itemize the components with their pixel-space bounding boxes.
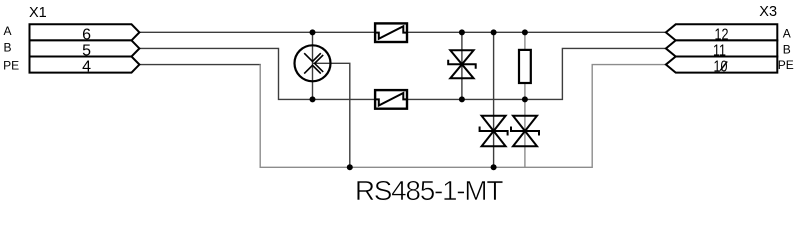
svg-text:5: 5 [82, 42, 91, 59]
junction: GDT bottom on B bus [310, 96, 316, 102]
svg-text:B: B [4, 40, 12, 54]
junction: TVS D2 branch on A line [491, 29, 497, 35]
wire GDT center electrode to PE bus [313, 63, 350, 167]
junction: GDT top on A line [310, 29, 316, 35]
svg-text:A: A [4, 24, 12, 38]
TVS diode D2 (bidirectional, A-PE) [480, 116, 508, 146]
svg-text:A: A [783, 26, 791, 40]
svg-text:12: 12 [715, 26, 729, 43]
svg-text:X3: X3 [759, 4, 777, 20]
wire A: X1.6 to fuse F1 [139, 31, 375, 33]
wire GDT vertical A to B [312, 32, 314, 99]
TVS diode D3 (bidirectional, B-PE) [511, 116, 539, 146]
wire B bus: fuse F2 to riser up to X3.11 [407, 48, 666, 99]
junction: R1 / TVS D3 on B bus [522, 96, 528, 102]
svg-text:11: 11 [713, 42, 726, 59]
slash of zero in pin number 10 [720, 61, 727, 70]
svg-text:RS485-1-MT: RS485-1-MT [355, 175, 503, 206]
wire A: fuse F1 to X3.12 [407, 31, 666, 33]
svg-text:PE: PE [778, 58, 794, 72]
fuse F2 (PTC resettable fuse, line B) [375, 90, 407, 109]
wire TVS D1 vertical A to B [461, 32, 463, 99]
junction: GDT electrode on PE bus [347, 164, 353, 170]
fuse F1 (PTC resettable fuse, line A) [375, 23, 407, 42]
wire PE riser, PE bus, riser up to X3.10 [260, 64, 666, 167]
svg-text:6: 6 [82, 26, 91, 43]
connector X1 terminal 5 (row B) [30, 40, 140, 56]
svg-text:X1: X1 [29, 5, 47, 21]
wire B: X1.5 down to B bus into fuse F2 [139, 48, 375, 99]
connector X3 terminal 10 (row PE) [666, 57, 777, 73]
junction: TVS D1 on B bus [459, 96, 465, 102]
connector X3 terminal 11 (row B) [666, 40, 777, 56]
connector X1 terminal 4 (row PE) [30, 57, 140, 73]
wire B bus down through TVS D3 to PE bus [524, 99, 526, 167]
wire resistor R1 bottom to B bus [524, 83, 526, 99]
wire PE: X1.4 to corner [139, 64, 261, 66]
connector X1 terminal 6 (row A) [30, 24, 140, 40]
junction: TVS D1 on A line [459, 29, 465, 35]
junction: TVS D2 on PE bus [491, 164, 497, 170]
svg-text:10: 10 [714, 59, 728, 76]
TVS diode D1 (bidirectional, A-B) [448, 50, 476, 78]
resistor R1 [519, 50, 531, 83]
junction: resistor R1 branch on A line [522, 29, 528, 35]
wire A to resistor R1 top [524, 32, 526, 50]
gas discharge tube GDT (3-electrode surge arrester) [295, 45, 331, 81]
svg-text:B: B [783, 42, 791, 56]
wire A down through TVS D2 to PE bus [493, 32, 495, 167]
connector X3 terminal 12 (row A) [666, 24, 777, 40]
svg-text:4: 4 [82, 59, 91, 76]
svg-text:PE: PE [3, 58, 19, 72]
